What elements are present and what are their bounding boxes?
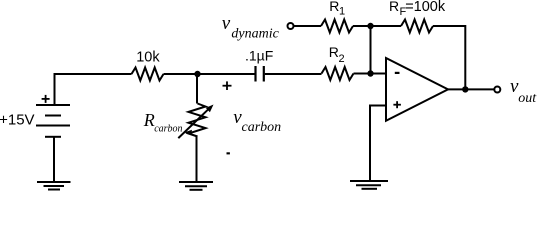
label + (battery positive terminal) <box>42 95 50 103</box>
svg-text:+15V: +15V <box>0 111 35 128</box>
wire op-amp output to v_out terminal <box>448 88 495 90</box>
svg-text:1: 1 <box>339 6 345 18</box>
svg-text:v: v <box>222 13 231 34</box>
ground (Rcarbon) <box>179 182 213 190</box>
label v_carbon <box>233 107 281 135</box>
variable resistor Rcarbon arrow <box>178 105 213 139</box>
ground (battery) <box>37 182 71 190</box>
terminal v_dynamic (open circle) <box>288 23 294 29</box>
wire v_dynamic terminal to R1 <box>294 25 322 27</box>
label v_out <box>510 76 537 106</box>
node junction (output/feedback) <box>462 86 468 92</box>
wire 10k resistor to junction node <box>164 73 198 75</box>
svg-text:=100k: =100k <box>405 0 446 15</box>
label R1 <box>329 0 345 18</box>
svg-text:R: R <box>329 44 339 60</box>
label v_dynamic <box>222 13 280 41</box>
svg-text:carbon: carbon <box>242 120 282 135</box>
svg-text:carbon: carbon <box>154 123 182 134</box>
wire from battery positive up and right to 10k resistor <box>55 74 132 104</box>
label RF=100k <box>389 0 446 18</box>
wire Rcarbon down to ground <box>196 137 198 182</box>
svg-text:R: R <box>389 0 399 14</box>
label R2 <box>329 44 345 65</box>
resistor R1 <box>321 20 353 33</box>
svg-text:10k: 10k <box>136 50 160 66</box>
wire op-amp non-inverting input to ground <box>370 106 386 182</box>
wire junction to capacitor <box>198 73 255 75</box>
svg-text:R: R <box>143 110 155 130</box>
svg-text:2: 2 <box>339 53 345 65</box>
wire from battery negative down to ground <box>53 137 55 181</box>
label + (non-inverting input) <box>393 101 401 108</box>
wire R2 to op-amp inverting input <box>354 73 387 75</box>
wire capacitor to R2 <box>265 73 322 75</box>
node junction (10k / Rcarbon / capacitor) <box>194 71 200 77</box>
terminal v_out (open circle) <box>494 87 500 93</box>
op-amp U1 <box>386 58 448 121</box>
resistor 10k <box>132 68 164 81</box>
wire junction down to Rcarbon <box>196 74 198 104</box>
label - (inverting input) <box>395 72 400 74</box>
ground (op-amp non-inverting input) <box>350 181 388 189</box>
svg-text:.1µF: .1µF <box>245 47 273 63</box>
node junction (R1/RF/vertical wire) <box>367 23 373 29</box>
node junction (R1/R2/op-amp inverting input) <box>367 70 373 76</box>
label Rcarbon <box>143 110 183 134</box>
label + (v_carbon polarity) <box>223 81 232 90</box>
svg-text:R: R <box>329 0 339 14</box>
resistor RF <box>401 20 433 33</box>
label - (v_carbon polarity) <box>227 152 230 154</box>
wire vertical between R1 node and R2 node <box>370 26 372 74</box>
wire RF to output node (feedback) <box>433 26 465 89</box>
variable resistor Rcarbon (zigzag) <box>189 104 206 137</box>
capacitor .1uF <box>256 66 264 82</box>
svg-text:dynamic: dynamic <box>231 26 279 41</box>
resistor R2 <box>322 67 354 80</box>
svg-text:out: out <box>518 91 537 106</box>
wire R1 to RF <box>353 25 401 27</box>
battery V1 (+15V source) <box>36 105 70 137</box>
